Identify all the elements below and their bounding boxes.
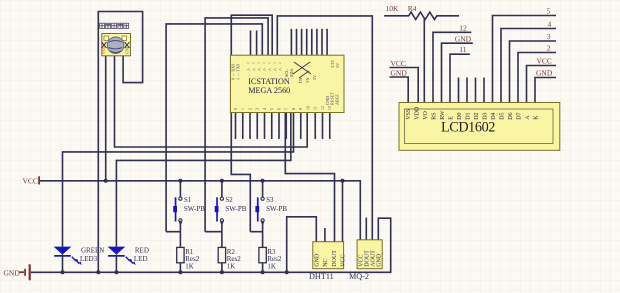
svg-text:K: K — [533, 115, 539, 120]
LCD D stub x458.5 — [458, 78, 460, 103]
MEGA bottom pin stub 5 — [264, 113, 266, 140]
power port VCC bar — [38, 176, 40, 184]
wire net GND to LCD — [535, 78, 556, 103]
MEGA bottom pin stub 3 — [249, 113, 251, 140]
svg-text:GND: GND — [455, 35, 472, 44]
wire LED RED LED cathode to GND — [115, 255, 117, 273]
wire net 2 to LCD — [518, 53, 556, 103]
svg-text:~: ~ — [279, 62, 282, 67]
MEGA bottom pin stub 4 — [256, 113, 258, 140]
svg-text:VCC: VCC — [340, 254, 346, 266]
svg-text:5V: 5V — [312, 75, 317, 80]
svg-text:RED: RED — [135, 247, 149, 255]
LED RED LED — [108, 247, 126, 255]
junction buzzer GND to rail — [96, 270, 100, 274]
wire R2 to GND rail — [221, 263, 223, 273]
LCD D stub x467 — [466, 78, 468, 103]
junction below S1 — [179, 221, 182, 224]
wire RED LED to MEGA — [116, 113, 290, 247]
svg-text:GND: GND — [391, 69, 408, 78]
wire S3 to MEGA top — [231, 15, 272, 232]
svg-text:US: US — [298, 77, 303, 83]
svg-text:3: 3 — [547, 32, 551, 41]
svg-text:1K: 1K — [185, 263, 194, 271]
svg-text:MQ-2: MQ-2 — [349, 272, 369, 281]
svg-text:2: 2 — [248, 108, 252, 110]
svg-text:ICSTATION: ICSTATION — [248, 77, 290, 86]
wire MQ-2 DOUT stub — [365, 218, 367, 240]
svg-text:SW-PB: SW-PB — [184, 205, 205, 213]
svg-text:12: 12 — [459, 23, 467, 32]
svg-text:LED3: LED3 — [80, 255, 98, 263]
buzzer body — [102, 34, 131, 56]
svg-text:GND: GND — [325, 96, 330, 105]
LCD inner rect — [405, 109, 554, 144]
junction VCC to S1 — [178, 179, 182, 183]
wire net 4 to LCD — [501, 29, 556, 103]
resistor R3 body — [259, 247, 266, 262]
switch S1 contact circles — [179, 197, 182, 200]
resistor R1 body — [177, 247, 184, 262]
svg-text:GREEN: GREEN — [81, 247, 104, 255]
svg-text:~: ~ — [252, 62, 255, 67]
MEGA bottom pin labels — [234, 106, 332, 110]
svg-text:VS: VS — [305, 77, 310, 83]
svg-text:~: ~ — [263, 62, 266, 67]
wire buzzer pin2 signal to MEGA — [115, 56, 308, 147]
MEGA bottom pin stub 14 — [329, 113, 331, 140]
svg-text:S1: S1 — [184, 196, 192, 204]
wire net 12 to LCD RS — [433, 32, 471, 102]
svg-text:DHT11: DHT11 — [309, 272, 334, 281]
svg-text:MEGA 2560: MEGA 2560 — [248, 86, 290, 95]
sensor MQ-2 body — [357, 240, 382, 269]
svg-text:6: 6 — [277, 108, 281, 110]
MEGA bottom pin stub 13 — [322, 113, 324, 140]
svg-text:SW-PB: SW-PB — [225, 205, 246, 213]
MEGA top pin stub x250.5 — [250, 31, 252, 56]
svg-text:5: 5 — [547, 6, 551, 15]
wire VCC to switch S3 — [262, 181, 264, 197]
svg-text:RS: RS — [431, 112, 437, 119]
wire switch S3 to resistor R3 — [262, 222, 264, 247]
wire buzzer pin1 to VCC rail — [105, 56, 107, 181]
MEGA bottom pin stub 6 — [271, 113, 273, 140]
wire R4 to LCD VO — [423, 19, 425, 103]
wire S1 junction arm — [166, 231, 180, 233]
MEGA top pin labels texture — [247, 62, 283, 74]
svg-text:4: 4 — [263, 108, 267, 110]
wire VCC to switch S2 — [221, 181, 223, 197]
MEGA bottom pin stub 12 — [314, 113, 316, 140]
wire VCC to LCD VDD — [390, 68, 419, 103]
svg-text:SW-PB: SW-PB — [266, 205, 287, 213]
svg-text:LCD1602: LCD1602 — [441, 119, 495, 135]
svg-text:LED: LED — [134, 255, 148, 263]
svg-text:0: 0 — [234, 108, 238, 110]
svg-text:8: 8 — [292, 108, 296, 110]
svg-text:~: ~ — [257, 62, 260, 67]
wire GND rail — [31, 218, 391, 272]
svg-text:VCC: VCC — [537, 56, 552, 65]
svg-text:VCC: VCC — [101, 45, 106, 54]
junction DHT11 GND — [285, 270, 289, 274]
svg-text:GND: GND — [377, 253, 383, 267]
switch S3 contact circles — [261, 197, 264, 200]
LCD1602 body — [399, 103, 560, 151]
MEGA small marks cluster — [284, 69, 317, 83]
wire R3 to GND rail — [262, 263, 264, 273]
svg-text:S2: S2 — [225, 196, 233, 204]
svg-text:5: 5 — [270, 108, 274, 110]
svg-text:12: 12 — [321, 106, 325, 110]
MEGA top pin stub x322.0 — [321, 29, 323, 55]
switch S2 actuator — [216, 197, 218, 221]
switch S3 actuator — [257, 197, 259, 221]
svg-text:R4: R4 — [408, 4, 417, 13]
wire VCC rail — [40, 181, 360, 240]
MEGA bottom pin stub 1 — [235, 113, 237, 140]
svg-text:D6: D6 — [508, 112, 514, 119]
svg-text:3: 3 — [256, 108, 260, 110]
buzzer X marks — [102, 42, 130, 48]
svg-text:VCC: VCC — [391, 59, 406, 68]
resistor R4 zigzag — [384, 12, 459, 19]
ground symbol bars — [20, 271, 25, 273]
svg-text:11: 11 — [459, 45, 466, 54]
MEGA top pin stub x306.7 — [306, 29, 308, 55]
wire GND to LCD VSS — [390, 77, 409, 103]
svg-text:D5: D5 — [499, 112, 505, 119]
svg-text:A: A — [525, 115, 531, 120]
buzzer chinese label 有源蜂鸣器 — [100, 23, 129, 28]
MEGA top pin stub x327.1 — [326, 29, 328, 55]
svg-text:1K: 1K — [267, 263, 276, 271]
svg-text:SDA: SDA — [289, 69, 294, 77]
IC ICSTATION MEGA 2560 body — [230, 55, 344, 112]
MEGA bottom pin stub 10 — [300, 113, 302, 140]
wire DHT11 VCC from rail — [342, 181, 344, 242]
wire switch S1 to resistor R1 — [179, 222, 181, 247]
svg-text:<: < — [252, 68, 256, 74]
buzzer speaker circle — [107, 37, 124, 54]
svg-text:VO: VO — [423, 110, 429, 119]
svg-text:AREF: AREF — [335, 94, 340, 105]
wire S1 to MEGA top — [166, 24, 262, 232]
wire S2 to MEGA top — [205, 18, 268, 232]
junction DHT11 VCC — [341, 179, 345, 183]
MEGA top pin stub x291.4 — [290, 29, 292, 55]
svg-text:4: 4 — [548, 19, 552, 28]
MEGA label cross marks — [293, 62, 311, 78]
svg-text:D7: D7 — [516, 112, 522, 119]
svg-text:<: < — [279, 68, 283, 74]
junction LED RED LED GND — [114, 270, 118, 274]
wire GREEN LED to MEGA — [63, 113, 294, 247]
switch S1 actuator — [175, 197, 177, 221]
wire S2 junction arm — [205, 231, 222, 233]
buzzer pad squares — [104, 36, 109, 41]
wire DHT11 NC stub — [324, 228, 326, 242]
svg-text:1K: 1K — [227, 263, 236, 271]
svg-text:9: 9 — [299, 108, 303, 110]
MEGA bottom pin stub 8 — [285, 113, 287, 140]
svg-text:~: ~ — [268, 62, 271, 67]
MEGA top pin stub x256.6 — [256, 31, 258, 56]
MEGA top pin stub x311.8 — [311, 29, 313, 55]
MEGA top pin stub x296.5 — [296, 29, 298, 55]
LED GREEN LED3 — [54, 247, 72, 255]
wire net 3 to LCD — [510, 41, 557, 103]
svg-text:GND: GND — [536, 68, 553, 77]
svg-text:GND: GND — [4, 269, 21, 278]
wire DHT11 GND to rail — [287, 217, 317, 272]
wire LED GREEN LED3 cathode to GND — [62, 255, 64, 273]
svg-text:5V: 5V — [335, 63, 340, 68]
MEGA bottom pin stub 2 — [242, 113, 244, 140]
junction below S2 — [220, 221, 223, 224]
svg-text:VDD: VDD — [414, 106, 420, 120]
LCD pin labels — [406, 106, 540, 120]
MEGA bottom pin stub 7 — [278, 113, 280, 140]
wire switch S2 to resistor R2 — [221, 222, 223, 247]
svg-text:7: 7 — [285, 108, 289, 110]
MEGA top pin stub x301.6 — [301, 29, 303, 55]
svg-text:GND: GND — [315, 253, 321, 267]
svg-text:10: 10 — [306, 106, 310, 110]
wire net 11 to LCD E — [450, 54, 470, 102]
switch S2 contact circles — [220, 197, 223, 200]
svg-text:13: 13 — [328, 106, 332, 110]
sensor DHT11 body — [313, 242, 344, 269]
svg-text:1 ← TX0: 1 ← TX0 — [236, 64, 241, 80]
MEGA top pin stub x316.9 — [316, 29, 318, 55]
wire net VCC to LCD — [527, 66, 557, 103]
svg-text:~: ~ — [273, 62, 276, 67]
wire R1 to GND rail — [179, 263, 181, 273]
LCD D stub x484 — [483, 78, 485, 103]
svg-text:NC: NC — [323, 258, 329, 266]
wire S3 junction arm — [250, 231, 262, 233]
wire net 5 to LCD — [493, 16, 557, 103]
junction LED GREEN LED3 GND — [61, 270, 65, 274]
svg-text:1: 1 — [241, 108, 245, 110]
wire MEGA top to MQ-2 AOUT — [277, 16, 372, 240]
svg-text:10K: 10K — [386, 4, 400, 13]
svg-text:DOUT: DOUT — [332, 250, 338, 267]
junction VCC to S3 — [261, 179, 265, 183]
junction R2 GND — [220, 270, 224, 274]
svg-text:VSS: VSS — [406, 109, 412, 120]
LCD D stub x475.5 — [475, 78, 477, 103]
junction below S3 — [261, 221, 264, 224]
wire VCC to switch S1 — [179, 181, 181, 197]
svg-text:GND: GND — [124, 45, 129, 54]
resistor R2 body — [218, 247, 225, 262]
wire net GND to LCD RW — [442, 43, 473, 102]
svg-text:VCC: VCC — [23, 177, 38, 186]
wire DHT11 DOUT to MEGA — [285, 113, 334, 242]
svg-text:S3: S3 — [266, 196, 274, 204]
svg-text:2: 2 — [547, 43, 551, 52]
junction VCC to S2 — [220, 179, 224, 183]
svg-text:~: ~ — [247, 62, 250, 67]
junction R3 GND — [261, 270, 265, 274]
wire buzzer pin3 loop to GND rail — [98, 12, 142, 273]
junction buzzer VCC to rail — [104, 179, 108, 183]
svg-text:11: 11 — [314, 106, 318, 110]
junction R1 GND — [178, 270, 182, 274]
